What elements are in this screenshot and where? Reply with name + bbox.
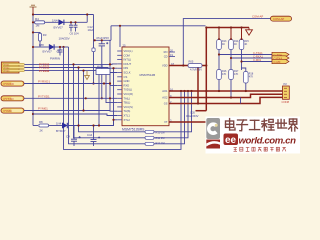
connector J1 3-pin left xyxy=(1,62,24,73)
wire rect top horizontal y40.3 xyxy=(94,39,112,41)
svg-text:XT: XT xyxy=(164,120,168,124)
svg-text:R12 1M: R12 1M xyxy=(156,141,165,145)
svg-text:RO: RO xyxy=(164,50,168,54)
wire cap C5 stub xyxy=(59,47,61,50)
svg-text:PYM01: PYM01 xyxy=(38,107,48,111)
glyph 世 xyxy=(276,119,287,128)
wire bus vertical v1 loop4 xyxy=(64,47,182,149)
glyph 界 xyxy=(289,119,298,131)
wire cap C6 lower stub xyxy=(70,27,72,31)
IC U1 left pin stubs xyxy=(117,51,122,120)
wire red pin stub L2 xyxy=(169,97,175,99)
resistor R12 on loop3 xyxy=(145,142,154,145)
port flag C-RXA xyxy=(272,56,289,61)
svg-text:R05: R05 xyxy=(189,60,194,64)
port flag PYTXD1 xyxy=(1,96,24,101)
resistor R3 vertical xyxy=(39,33,42,41)
wire ladder col3 jog xyxy=(242,68,246,72)
wire bottom branch mid xyxy=(49,125,63,127)
wire bottom branch xyxy=(33,125,38,127)
wire bottom branch after diode xyxy=(68,120,117,126)
glyph 子 xyxy=(237,120,248,131)
svg-text:PY01: PY01 xyxy=(4,64,10,66)
wire bus vertical v4 loop1 xyxy=(79,68,192,132)
wire red y65.5 from IC xyxy=(169,65,188,67)
wire red bus horizontal y27.5 xyxy=(206,27,250,29)
svg-text:C44: C44 xyxy=(87,133,93,137)
wire rail net y114 xyxy=(33,114,117,116)
svg-text:TA(L): TA(L) xyxy=(124,96,131,100)
diode D2 BYV07 xyxy=(49,44,54,49)
svg-text:MSM7512BRS: MSM7512BRS xyxy=(122,128,145,132)
logo mark grey square with C xyxy=(206,118,220,149)
svg-text:4K: 4K xyxy=(244,43,247,46)
wire red bus vertical x206.3 xyxy=(205,28,207,111)
svg-text:ee: ee xyxy=(225,135,237,146)
port flag C-TXA xyxy=(272,52,289,57)
capacitor C8 47uF plates xyxy=(99,42,109,46)
resistor R14 col2 top xyxy=(229,40,234,50)
resistor R8 bottom branch xyxy=(39,124,49,127)
svg-text:P2: P2 xyxy=(284,82,288,86)
power port arrow symbol right xyxy=(246,28,253,36)
capacitor C5 plates xyxy=(58,50,63,52)
svg-text:CD: CD xyxy=(164,55,168,59)
resistor R17 col2 bottom xyxy=(229,70,234,80)
svg-text:R8: R8 xyxy=(39,120,43,124)
wire red pin stub L4b xyxy=(169,121,176,123)
svg-text:GND: GND xyxy=(124,79,130,83)
resistor R4 branch1 xyxy=(35,21,45,24)
svg-text:PYTXD1: PYTXD1 xyxy=(38,94,50,98)
resistor R10 on loop1 xyxy=(145,130,154,133)
wire flag row B xyxy=(231,57,272,59)
wire red L4b y122 xyxy=(176,121,212,123)
svg-text:10uF: 10uF xyxy=(88,28,95,32)
svg-text:TB(L): TB(L) xyxy=(124,101,131,105)
value label loop resistors xyxy=(156,131,165,146)
svg-text:C-RXA1: C-RXA1 xyxy=(253,54,263,58)
wire branch1 riser to y14.5 xyxy=(86,15,88,23)
wire ladder col3 xyxy=(241,40,243,71)
svg-text:CS: CS xyxy=(124,75,128,79)
junction dots top-left xyxy=(32,13,121,115)
wire bus vertical v7 box pin B xyxy=(106,75,117,103)
svg-text:R3: R3 xyxy=(43,33,47,37)
svg-text:25: 25 xyxy=(123,43,127,47)
wire connector row3 xyxy=(25,71,118,73)
svg-text:1N4: 1N4 xyxy=(52,18,58,22)
wire red y65.5 to bus xyxy=(202,65,206,67)
wire flag row A xyxy=(219,54,272,56)
component K1 small box xyxy=(96,69,110,75)
wire flag PYRXD1 net xyxy=(24,84,117,86)
wire red L4a y110.7 xyxy=(196,110,207,112)
svg-text:SCLK: SCLK xyxy=(124,71,131,75)
wire connector row2 xyxy=(25,67,118,70)
svg-text:4.7uF/16V: 4.7uF/16V xyxy=(190,67,202,71)
wire branch2 after diode D2 xyxy=(54,46,69,48)
glyph 程 xyxy=(262,119,274,130)
port flag PYM1 xyxy=(1,108,24,113)
logo text 电子工程世界 (vector strokes) xyxy=(226,119,298,131)
svg-text:R4: R4 xyxy=(35,17,39,21)
power symbol VCC top-left xyxy=(30,5,37,7)
svg-text:PYM0: PYM0 xyxy=(4,109,13,113)
svg-text:COM-AP: COM-AP xyxy=(273,17,284,21)
wire long top horizontal y27.5 xyxy=(111,25,206,27)
capacitor C44 stub xyxy=(91,126,101,147)
capacitor C4 plates xyxy=(71,136,81,141)
logo ee badge xyxy=(224,134,239,146)
svg-text:INT(L): INT(L) xyxy=(124,58,132,62)
IC U1 MSM7512B body xyxy=(122,47,169,126)
wire bus vertical v3 loop2 xyxy=(74,64,189,137)
IC U1 right pin numbers xyxy=(170,48,174,122)
port flag C-M0 xyxy=(272,59,289,64)
wire resistor R3 top feed xyxy=(33,31,40,34)
resistor R20 on red wire xyxy=(188,64,202,68)
diode D1 BYV07 xyxy=(59,20,64,25)
svg-text:R10 1M: R10 1M xyxy=(156,131,165,135)
resistor R13 col1 top xyxy=(217,40,222,50)
wire cap C7 lower stub xyxy=(75,27,77,31)
connector CN2 right xyxy=(283,86,290,99)
logo EEWorld white background xyxy=(206,117,301,154)
svg-text:world.com.cn: world.com.cn xyxy=(239,136,297,147)
node VDD red bus top xyxy=(169,28,283,123)
fuse F1 small box on x93.5 xyxy=(92,48,95,52)
svg-text:PYRXD1: PYRXD1 xyxy=(38,80,50,84)
wire branch1 horizontal xyxy=(33,21,58,23)
wire bus vertical v5 xyxy=(83,71,85,111)
junction dot C44 xyxy=(92,124,94,126)
svg-text:RXD: RXD xyxy=(124,83,130,87)
svg-text:1M: 1M xyxy=(36,24,41,28)
wire connector row1 xyxy=(25,63,118,66)
svg-text:C-M0: C-M0 xyxy=(274,60,281,64)
svg-text:L88: L88 xyxy=(39,43,44,47)
wire cap C8 lower vertical long xyxy=(101,46,103,98)
resistor R18 col3 bottom 47K xyxy=(244,72,249,84)
svg-text:XTL2: XTL2 xyxy=(124,118,131,122)
wire ladder col3 lower xyxy=(245,83,247,91)
capacitor C6 plates xyxy=(69,25,73,27)
resistor R11 on loop2 xyxy=(145,136,154,139)
svg-text:PYRXD: PYRXD xyxy=(4,82,15,86)
svg-text:C4: C4 xyxy=(66,135,70,139)
wire bus vertical v6 box pin A xyxy=(98,75,100,126)
wire cap C4 stub xyxy=(73,126,75,140)
svg-text:TA(S): TA(S) xyxy=(124,109,131,113)
wire red pin stub L3 xyxy=(169,103,176,105)
svg-text:47K: 47K xyxy=(249,75,254,78)
svg-text:C-TXA1: C-TXA1 xyxy=(253,51,263,55)
wire ladder col1 xyxy=(218,40,220,92)
svg-text:GS: GS xyxy=(164,102,168,106)
wire cap C8 stub xyxy=(101,40,103,43)
capacitor C7 plates xyxy=(74,25,78,27)
wire flag PYM1 net xyxy=(24,110,117,113)
svg-text:AO1: AO1 xyxy=(162,89,168,93)
svg-text:4K: 4K xyxy=(234,43,237,46)
svg-text:VCC(R): VCC(R) xyxy=(124,92,134,96)
wire cap C6 stub xyxy=(70,22,72,25)
svg-text:C6 104: C6 104 xyxy=(70,31,79,35)
svg-text:VCC(L): VCC(L) xyxy=(124,49,133,53)
svg-text:BYV07: BYV07 xyxy=(43,50,53,54)
power port arrow symbol left xyxy=(85,71,90,80)
wire COM-AP net xyxy=(183,19,280,66)
svg-text:VCC(S): VCC(S) xyxy=(124,105,133,109)
glyph 电 xyxy=(226,119,236,130)
svg-text:104/25V: 104/25V xyxy=(59,37,70,41)
wire resistor R3 bottom feed xyxy=(39,41,41,47)
svg-text:CON8: CON8 xyxy=(282,100,290,104)
wire vertical x120 into IC top xyxy=(119,26,121,47)
resistor R15 col3 top xyxy=(239,40,244,50)
wire red stub col1 xyxy=(218,28,220,40)
logo slogan (vector glyph blobs) xyxy=(234,147,286,151)
svg-text:BYD17: BYD17 xyxy=(56,129,66,133)
wire red stub col2 xyxy=(230,28,232,40)
glyph 工 xyxy=(250,120,260,129)
wire bus vertical v2 loop3 xyxy=(69,47,185,144)
IC U1 pin names left column xyxy=(124,49,134,122)
svg-text:2K: 2K xyxy=(40,128,44,132)
svg-text:VDD: VDD xyxy=(162,64,168,68)
svg-text:MSM7512B: MSM7512B xyxy=(140,73,156,77)
svg-text:DOUT: DOUT xyxy=(124,62,132,66)
wire red stub col3 xyxy=(241,28,243,40)
wire flag row C xyxy=(242,61,273,63)
wire L2-L3 bridge xyxy=(240,98,242,104)
svg-text:PYTXD: PYTXD xyxy=(4,97,15,101)
wire red L2 y97.5 xyxy=(175,94,283,97)
wire cap C7 stub xyxy=(75,22,77,25)
svg-text:XTL1: XTL1 xyxy=(124,114,131,118)
svg-text:47K: 47K xyxy=(222,73,227,76)
svg-text:47K: 47K xyxy=(234,73,239,76)
wire cap C5 lower stub xyxy=(59,52,61,55)
wire VCC stub xyxy=(32,7,34,15)
svg-text:COM-AP: COM-AP xyxy=(252,15,263,19)
port flag PYRXD1 xyxy=(1,81,24,86)
svg-text:PY02: PY02 xyxy=(4,67,10,69)
port flag COM-AP top right xyxy=(271,16,292,21)
IC U1 right pin stubs xyxy=(169,52,175,57)
wire top horizontal y14.5 xyxy=(33,14,94,16)
svg-text:0.1uF/63V: 0.1uF/63V xyxy=(186,114,199,118)
wire vertical x93.5 xyxy=(93,15,95,84)
resistor R16 col1 bottom xyxy=(217,70,222,80)
wire branch1 after diode D1 xyxy=(64,21,87,23)
wire VCC vertical rail xyxy=(32,15,34,126)
svg-text:PY03: PY03 xyxy=(4,71,10,73)
svg-text:C3: C3 xyxy=(57,49,61,53)
svg-text:TXD(L): TXD(L) xyxy=(124,88,133,92)
wire flag PYTXD1 net xyxy=(24,97,117,99)
diode D4 BYD17 xyxy=(62,123,67,128)
wire red L1 y91 xyxy=(175,90,283,92)
svg-text:PY2302: PY2302 xyxy=(39,69,50,73)
svg-text:AO2: AO2 xyxy=(162,96,168,100)
junction dots left bus xyxy=(72,63,114,126)
svg-text:4N25: 4N25 xyxy=(97,65,104,69)
svg-text:DIN: DIN xyxy=(124,66,129,70)
wire bus vertical v8 xyxy=(109,40,111,110)
svg-text:R11 1M: R11 1M xyxy=(156,136,165,140)
wire bus vertical v9 xyxy=(113,68,115,125)
svg-text:COM: COM xyxy=(124,53,131,57)
IC U1 right pin names xyxy=(162,50,168,124)
wire red L3 y103.5 xyxy=(176,97,283,103)
svg-text:4K: 4K xyxy=(222,43,225,46)
svg-text:1N4: 1N4 xyxy=(56,122,62,126)
junction dots right side xyxy=(33,26,247,125)
wire red pin stub L1 xyxy=(169,90,175,92)
wire cap C4 lower stub xyxy=(73,141,75,146)
svg-text:C-M01: C-M01 xyxy=(253,58,262,62)
svg-text:BYV07: BYV07 xyxy=(54,26,64,30)
svg-text:PWRIN: PWRIN xyxy=(50,56,60,60)
wire branch2 horizontal xyxy=(33,46,49,48)
wire ladder col2 xyxy=(230,40,232,98)
wire vertical x111 xyxy=(110,26,112,41)
wire red vertical x198 xyxy=(197,67,199,103)
